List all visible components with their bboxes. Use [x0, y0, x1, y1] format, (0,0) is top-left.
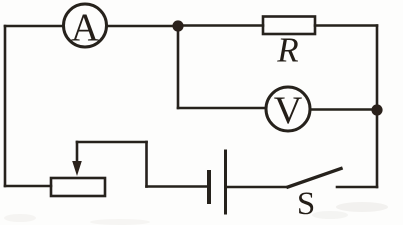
wire top-left: left corner to ammeter	[5, 25, 63, 28]
wire node A to resistor R	[178, 24, 263, 27]
battery B1 long plate	[224, 151, 227, 213]
ammeter label A	[71, 6, 99, 49]
rheostat body	[51, 178, 105, 196]
rheostat slider stem	[76, 142, 79, 164]
wire resistor to top-right corner	[315, 24, 377, 27]
wire right vertical lower (node B to switch)	[376, 110, 379, 187]
wire to battery negative	[147, 185, 208, 188]
wire left vertical	[4, 26, 7, 186]
battery B1 short plate	[207, 172, 211, 202]
rheostat slider arrowhead	[72, 161, 82, 176]
resistor label R	[276, 31, 298, 70]
wire slider top horizontal	[77, 141, 147, 144]
wire voltmeter branch vertical (node A down)	[177, 26, 180, 108]
wire voltmeter to node B	[310, 108, 377, 111]
svg-text:A: A	[71, 6, 99, 49]
resistor R body	[263, 17, 315, 35]
svg-text:S: S	[297, 186, 315, 222]
wire right vertical upper (corner to node B)	[376, 26, 379, 111]
node B junction dot	[371, 104, 382, 115]
voltmeter V1 circle	[266, 87, 310, 131]
switch label S	[297, 186, 315, 222]
switch S fixed contact wire	[337, 186, 377, 189]
voltmeter label V	[274, 88, 303, 132]
svg-text:R: R	[276, 31, 298, 70]
ammeter A1 circle	[64, 4, 107, 47]
wire slider branch vertical down	[145, 142, 148, 187]
svg-text:V: V	[274, 88, 303, 132]
wire bottom-left horizontal to rheostat	[5, 185, 51, 188]
wire battery to switch pivot	[226, 186, 289, 189]
wire ammeter to node A	[107, 25, 179, 28]
switch S blade	[288, 169, 341, 188]
node A junction dot	[172, 20, 183, 31]
wire voltmeter branch left horizontal	[178, 107, 266, 110]
